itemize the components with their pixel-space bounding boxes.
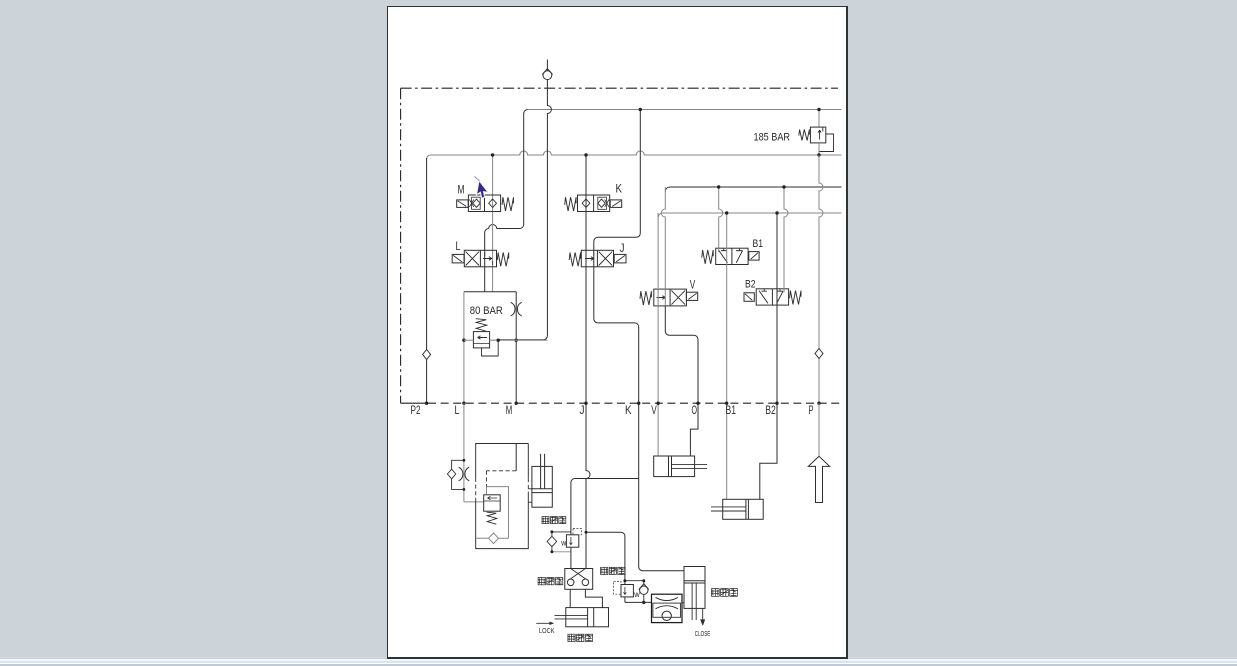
node bus2-valveK bbox=[584, 153, 587, 156]
relief valve 80BAR body bbox=[473, 332, 489, 348]
svg-text:L: L bbox=[456, 239, 461, 253]
wire lock to cylinder right bbox=[585, 589, 602, 607]
wire valve J drain to port K bbox=[594, 258, 639, 403]
valve L solenoid bbox=[452, 254, 464, 263]
wire valve V right line / port O bbox=[661, 187, 665, 306]
node port V bbox=[656, 402, 659, 405]
lock pilot cylinder body bbox=[532, 466, 552, 507]
wire valve B1 out to port B1 bbox=[726, 213, 728, 499]
node port L bbox=[462, 402, 465, 405]
svg-text:M: M bbox=[458, 183, 465, 197]
throttle arcs bbox=[656, 597, 678, 600]
wire M line pilot (dashed) bbox=[515, 444, 517, 471]
close cylinder rod bbox=[691, 583, 693, 620]
valve B1 solenoid bbox=[749, 252, 759, 261]
node bus1-valveJ bbox=[639, 108, 642, 111]
port manifold line bbox=[401, 402, 428, 404]
node J-seq2 bbox=[585, 531, 588, 534]
node port J bbox=[584, 402, 587, 405]
node 185bar-bus2 bbox=[817, 153, 820, 156]
node M-relief bbox=[515, 339, 518, 342]
svg-text:B1: B1 bbox=[726, 403, 737, 417]
wire 185BAR drain loop bbox=[819, 134, 834, 152]
wire lock to cylinder left bbox=[569, 589, 571, 607]
hydraulic lock block bbox=[565, 569, 593, 590]
node bus1-185bar bbox=[817, 108, 820, 111]
wire relief pilot loop bbox=[482, 340, 499, 356]
wire L line below port bbox=[463, 403, 465, 502]
throttle check ball bbox=[662, 611, 671, 620]
node bus3-B1 bbox=[717, 185, 720, 188]
node port B2 bbox=[775, 402, 778, 405]
svg-text:B2: B2 bbox=[745, 279, 756, 291]
svg-text:185 BAR: 185 BAR bbox=[754, 132, 791, 144]
page frame dash-dot border top bbox=[401, 87, 838, 89]
wire relief ports bbox=[464, 339, 474, 341]
close cylinder body bbox=[684, 567, 705, 609]
reducing valve body bbox=[484, 495, 501, 511]
node seq1 top bbox=[550, 530, 553, 533]
wire vertical x547 with hop over bus1 bbox=[498, 80, 551, 340]
relief valve 185BAR body bbox=[810, 127, 825, 143]
wire 80bar box top bbox=[464, 291, 516, 293]
lock cylinder label bbox=[568, 634, 575, 641]
close direction arrow bbox=[702, 609, 704, 620]
svg-text:P: P bbox=[809, 403, 814, 417]
svg-text:P2: P2 bbox=[411, 403, 421, 417]
wire bus1 to valve L feed bbox=[485, 110, 528, 251]
wire bus1 to valve J feed bbox=[594, 110, 641, 259]
valve B2 spring bbox=[790, 291, 801, 305]
valve B2 body bbox=[756, 289, 788, 305]
svg-text:O: O bbox=[692, 403, 698, 417]
node L bypass top bbox=[463, 459, 466, 462]
valve K body bbox=[578, 195, 610, 212]
sequence valve 1 check bypass bbox=[552, 531, 571, 533]
node L-relief bbox=[462, 339, 465, 342]
wire J to sequence valve 2 bbox=[586, 532, 625, 584]
svg-text:w: w bbox=[560, 539, 566, 548]
valve J solenoid bbox=[614, 254, 626, 263]
valve V body bbox=[654, 289, 687, 306]
svg-text:J: J bbox=[620, 241, 625, 255]
node L bypass bottom bbox=[463, 488, 466, 491]
valve B1 spring bbox=[702, 250, 713, 264]
wire P column riser bbox=[819, 155, 823, 349]
sequence valve 1 body bbox=[566, 535, 578, 547]
valve J body bbox=[581, 250, 613, 266]
wire 185BAR to bus2 bbox=[818, 143, 820, 155]
valve K solenoid bbox=[610, 200, 622, 208]
wire bus1 to 185BAR valve bbox=[818, 110, 820, 128]
bus line 1 (P supply y109.5) bbox=[528, 109, 842, 111]
node relief pilot bbox=[497, 339, 500, 342]
mouse cursor bbox=[471, 176, 490, 199]
svg-text:M: M bbox=[506, 403, 513, 417]
lock pilot cylinder rod bbox=[540, 454, 542, 489]
orifice on L line bbox=[459, 467, 470, 481]
valve V spring bbox=[640, 291, 651, 305]
manifold block outline bbox=[476, 444, 529, 549]
cylinder B1-B2 body bbox=[723, 499, 764, 519]
check/measuring point symbol top bbox=[546, 60, 548, 71]
wire port P2 riser bbox=[426, 158, 428, 350]
cylinder B1-B2 rod bbox=[711, 506, 746, 508]
wire seq1 to lock bbox=[570, 547, 572, 568]
LOCK arrow bbox=[536, 622, 552, 624]
svg-text:L: L bbox=[455, 403, 460, 417]
sequence valve 2 body bbox=[621, 585, 633, 597]
valve J spring bbox=[569, 253, 580, 267]
node port O bbox=[696, 402, 699, 405]
spring 80BAR valve bbox=[476, 319, 487, 332]
wire L line to reducing valve bbox=[464, 501, 484, 503]
lock cylinder body bbox=[566, 608, 609, 627]
svg-text:K: K bbox=[625, 403, 632, 417]
valve V solenoid bbox=[686, 292, 697, 300]
node seq2 top right bbox=[642, 579, 645, 582]
node port M bbox=[515, 402, 518, 405]
wire M column bbox=[515, 292, 517, 403]
node bus4-B2 bbox=[775, 211, 778, 214]
pilot line to lock cylinder (dashed) bbox=[528, 488, 532, 490]
svg-text:LOCK: LOCK bbox=[539, 628, 555, 635]
valve K spring bbox=[565, 197, 576, 211]
svg-text:CLOSE: CLOSE bbox=[695, 631, 711, 638]
valve L spring bbox=[497, 253, 508, 267]
wire seq2 out bbox=[625, 597, 652, 603]
node seq2 top left bbox=[623, 579, 626, 582]
hydraulic lock label bbox=[538, 578, 545, 585]
wire valve K through-line bbox=[585, 155, 587, 403]
node port P2 bbox=[425, 402, 428, 405]
wire L column upper bbox=[463, 292, 465, 403]
check valve bypass on L line bbox=[452, 460, 464, 489]
svg-text:V: V bbox=[651, 403, 657, 417]
svg-text:V: V bbox=[690, 277, 696, 291]
node bus4-B1 bbox=[725, 211, 728, 214]
wire valve B2 out to port B2 bbox=[776, 213, 778, 403]
wire valve V left line bbox=[657, 213, 659, 456]
wire valve L left through-line bbox=[484, 250, 486, 291]
wire J branch to sequence valve 1 bbox=[571, 479, 639, 535]
bus line 2 (y155) bbox=[427, 151, 842, 159]
valve M solenoid bbox=[457, 200, 469, 208]
cylinder V-O body bbox=[654, 456, 695, 477]
check valve diamond P2 line bbox=[423, 350, 431, 360]
wire bus3 to valve B1 bbox=[719, 187, 723, 252]
close cylinder label bbox=[712, 589, 720, 597]
page frame dash-dot border left bbox=[400, 88, 402, 403]
bus line 3 (y187) bbox=[665, 187, 841, 192]
wire bus3 to valve B2 bbox=[784, 187, 788, 293]
sequence valve 2 label bbox=[601, 567, 608, 574]
valve B2 solenoid bbox=[744, 293, 754, 302]
check valve in block bbox=[476, 537, 509, 539]
reducing valve spring bbox=[487, 512, 497, 524]
spring 185BAR bbox=[799, 130, 810, 141]
node seq2 bottom bbox=[642, 601, 645, 604]
reducing valve pilot loop (gray) bbox=[487, 487, 509, 539]
pump arrow below port P bbox=[818, 403, 820, 456]
valve M spring bbox=[502, 197, 513, 211]
check valve diamond P line bbox=[815, 349, 823, 359]
node seq1 bottom bbox=[550, 550, 553, 553]
sequence valve 1 label bbox=[542, 517, 549, 524]
svg-text:B2: B2 bbox=[765, 403, 776, 417]
svg-text:B1: B1 bbox=[753, 238, 764, 250]
bus line 4 (y213) bbox=[658, 213, 841, 218]
valve L body bbox=[464, 250, 496, 266]
orifice on M line bbox=[511, 302, 522, 316]
wire throttle to close cylinder bbox=[682, 602, 684, 604]
cylinder V-O rod bbox=[672, 463, 708, 465]
node port B1 bbox=[725, 402, 728, 405]
throttle check valve box bbox=[652, 594, 683, 622]
node bus2-valveM bbox=[491, 153, 494, 156]
sequence valve 2 check bypass bbox=[625, 580, 644, 582]
valve B1 body bbox=[716, 248, 748, 264]
lock cylinder rod bbox=[555, 614, 588, 616]
node bus3-B2 bbox=[782, 185, 785, 188]
wire valve M through-line bbox=[492, 155, 494, 250]
throttle inner box bbox=[653, 603, 681, 617]
svg-text:J: J bbox=[580, 403, 585, 417]
valve M body bbox=[468, 195, 500, 212]
node port P bbox=[817, 402, 820, 405]
svg-text:80 BAR: 80 BAR bbox=[470, 305, 503, 317]
svg-text:w: w bbox=[633, 590, 640, 599]
node port K bbox=[637, 402, 640, 405]
svg-text:K: K bbox=[616, 182, 623, 196]
